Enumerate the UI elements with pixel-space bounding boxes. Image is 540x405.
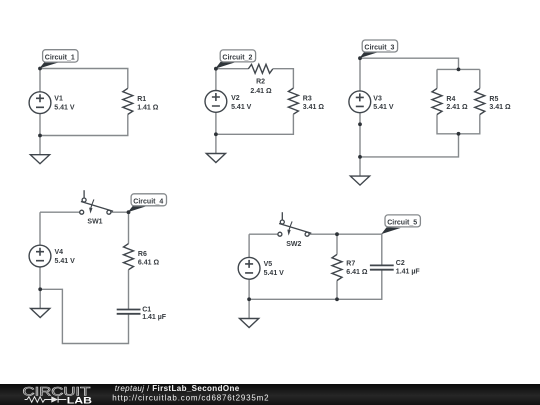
svg-text:Circuit_4: Circuit_4 [133,198,163,205]
svg-text:C2: C2 [396,260,405,267]
svg-text:Circuit_5: Circuit_5 [387,219,417,226]
svg-text:6.41 Ω: 6.41 Ω [346,269,368,276]
svg-text:3.41 Ω: 3.41 Ω [489,104,511,111]
svg-text:V3: V3 [373,96,382,103]
svg-text:2.41 Ω: 2.41 Ω [446,104,468,111]
svg-text:R5: R5 [489,96,498,103]
svg-text:5.41 V: 5.41 V [54,104,75,111]
svg-text:5.41 V: 5.41 V [264,270,285,277]
svg-text:http://circuitlab.com/cd6876t2: http://circuitlab.com/cd6876t2935m2 [112,394,269,403]
svg-text:1.41 Ω: 1.41 Ω [137,104,159,111]
svg-text:C1: C1 [142,307,151,314]
svg-text:2.41 Ω: 2.41 Ω [250,88,272,95]
svg-text:R2: R2 [256,79,265,86]
svg-text:V1: V1 [54,96,63,103]
svg-text:3.41 Ω: 3.41 Ω [303,104,325,111]
svg-text:R6: R6 [138,251,147,258]
svg-text:R4: R4 [446,96,455,103]
svg-text:1.41 µF: 1.41 µF [142,314,167,321]
svg-text:5.41 V: 5.41 V [231,104,252,111]
svg-text:Circuit_2: Circuit_2 [222,54,252,61]
svg-text:SW1: SW1 [87,219,102,226]
svg-text:5.41 V: 5.41 V [55,258,76,265]
svg-text:LAB: LAB [67,395,92,405]
svg-text:R7: R7 [346,261,355,268]
svg-text:V2: V2 [231,95,240,102]
svg-text:treptauj / FirstLab_SecondOne: treptauj / FirstLab_SecondOne [115,384,240,393]
svg-text:V4: V4 [55,249,64,256]
svg-text:SW2: SW2 [286,241,301,248]
svg-text:Circuit_1: Circuit_1 [45,54,75,61]
svg-text:5.41 V: 5.41 V [373,104,394,111]
svg-text:R3: R3 [303,96,312,103]
svg-text:R1: R1 [137,96,146,103]
svg-text:V5: V5 [264,261,273,268]
svg-text:Circuit_3: Circuit_3 [364,45,394,52]
svg-text:1.41 µF: 1.41 µF [396,268,421,275]
svg-text:6.41 Ω: 6.41 Ω [138,260,160,267]
